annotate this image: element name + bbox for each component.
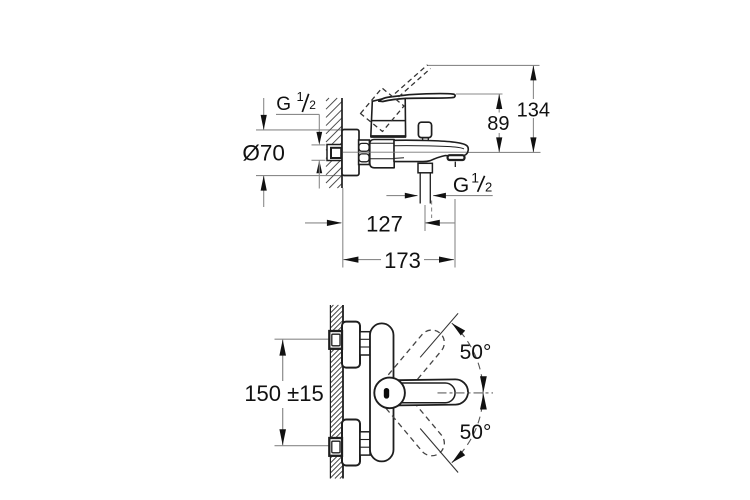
diverter pull knob [418, 122, 431, 137]
cartridge pivot circle [374, 378, 405, 409]
extension line spout bottom [467, 151, 541, 153]
hose pipe left line [419, 173, 421, 204]
connector thread line lower a [361, 439, 370, 441]
hex nut facet lower [359, 154, 369, 162]
dimension line 173 right [424, 259, 454, 261]
extension line lower connection [275, 445, 331, 447]
dimension line 89 lower [498, 133, 500, 152]
aerator [448, 155, 465, 160]
50 deg reference line upper [420, 313, 458, 357]
svg-text:1: 1 [471, 170, 479, 186]
svg-text:134: 134 [517, 99, 550, 121]
temperature indicator dot [384, 388, 389, 399]
arrow G1/2 wall down [316, 132, 322, 145]
diverter stem right [427, 138, 429, 141]
aerator outlet tick [454, 162, 456, 167]
extension line hose centre [424, 205, 426, 231]
svg-text:50°: 50° [460, 421, 492, 444]
dimension line G1/2 hose left [386, 195, 417, 197]
arrow 173 left [343, 257, 358, 263]
arrow 134 bottom [530, 137, 536, 152]
union hex nut (side view) [359, 140, 370, 165]
extension line escutcheon bottom (O70) [256, 175, 342, 177]
arrow 89 bottom [496, 137, 502, 152]
svg-text:89: 89 [487, 113, 509, 135]
arrow O70 bottom [261, 176, 267, 191]
angle arc lower [452, 393, 483, 463]
arrow 150 bottom [279, 429, 286, 445]
arrow 150 top [279, 340, 286, 356]
extension line wall surface lower [342, 188, 344, 268]
escutcheon upper (plan) [342, 322, 360, 368]
handle centreline inner part [438, 392, 469, 394]
arrow 127 at wall [327, 220, 342, 226]
extension line escutcheon top (O70) [256, 129, 342, 131]
diverter stem left [422, 138, 424, 141]
arrow 127 at hose [425, 220, 440, 226]
wall surface line (side view) [341, 98, 343, 188]
50 deg reference line lower [420, 429, 458, 473]
connector thread line lower b [361, 446, 370, 448]
arrow O70 top [261, 115, 267, 130]
fraction slash (hose thread) [478, 176, 485, 192]
handle swung up 50 deg (dashed) [377, 330, 444, 406]
spout contour line upper [394, 146, 464, 149]
arrow 89 top [496, 94, 502, 109]
lever handle (plan) outer [377, 379, 468, 405]
connector thread line upper a [361, 338, 370, 340]
svg-text:173: 173 [384, 248, 421, 273]
spout contour line lower [394, 157, 404, 160]
hose pipe right line [429, 173, 431, 204]
dimension line 150 lower [282, 408, 284, 446]
dimension line 150 upper [282, 339, 284, 381]
wall surface line (plan view) [342, 305, 344, 479]
extension line nipple bottom [312, 159, 326, 161]
svg-text:2: 2 [309, 98, 316, 112]
handle open position (dashed) [361, 88, 405, 132]
extension line nipple top [312, 144, 326, 146]
arc arrow upper end [452, 323, 465, 335]
union block line lower [370, 158, 394, 160]
dimension line 134 lower [532, 118, 534, 152]
lever handle (plan) inner [380, 383, 455, 403]
union nut inner upper [332, 334, 340, 346]
union nut upper (plan) [329, 331, 342, 349]
leader line G1/2 wall horizontal [276, 113, 319, 115]
leader line G1/2 wall vertical [318, 114, 320, 132]
escutcheon lower (plan) [342, 420, 360, 466]
svg-text:1: 1 [297, 89, 304, 104]
extension line hose right edge [431, 201, 433, 219]
extension line lever top [456, 93, 503, 95]
nipple bore [331, 148, 341, 158]
shower hose fitting [418, 163, 432, 173]
body ring line [371, 120, 405, 122]
arrow G1/2 hose right [433, 193, 446, 199]
arc arrow lower end [452, 450, 465, 462]
dimension line 127 left [305, 222, 341, 224]
threaded connector upper [360, 332, 370, 355]
escutcheon (side view) [342, 130, 359, 176]
connector thread line upper b [361, 346, 370, 348]
lever raised dashed line upper [395, 65, 428, 94]
hex nut facet upper [359, 143, 369, 151]
svg-text:G: G [453, 174, 469, 197]
dimension line O70 lower segment [263, 176, 265, 207]
wall back line (plan view) [329, 305, 331, 479]
extension line spout outlet [454, 199, 456, 268]
arrow G1/2 hose left [405, 193, 418, 199]
svg-text:150 ±15: 150 ±15 [244, 381, 323, 406]
pipe nipple behind wall [327, 145, 342, 161]
lever raised dashed line lower [399, 69, 431, 98]
handle centreline [438, 392, 494, 394]
angle arc upper [452, 323, 483, 393]
extension line handle raised top [427, 64, 540, 66]
threaded connector lower [360, 432, 370, 455]
wall hatching (plan view) [330, 305, 343, 479]
arrow 173 right [439, 257, 454, 263]
svg-text:Ø70: Ø70 [242, 141, 285, 166]
dimension line G1/2 hose right [433, 195, 493, 197]
fraction slash (wall thread) [302, 94, 308, 112]
dimension line O70 upper segment [263, 98, 265, 130]
svg-text:G: G [276, 94, 291, 115]
wall hatching (side view) [326, 98, 342, 188]
arrow 134 top [530, 65, 536, 80]
arrow G1/2 wall up [316, 160, 322, 173]
inlet union block [370, 140, 394, 168]
dimension line 127 right [425, 222, 455, 224]
body base heavy line [370, 135, 406, 138]
mixer body [371, 97, 406, 137]
arc arrow at centreline upper [480, 376, 487, 392]
svg-text:127: 127 [366, 211, 403, 236]
dimension line 173 left [343, 259, 381, 261]
arc arrow at centreline lower [480, 394, 487, 410]
dimension line 134 upper [532, 65, 534, 99]
connection centreline [343, 151, 467, 153]
mixer body (plan) [370, 323, 394, 461]
spout [394, 140, 468, 161]
union block line upper [370, 142, 394, 144]
svg-text:50°: 50° [460, 341, 492, 364]
extension line upper connection [275, 338, 331, 340]
dimension line 89 upper [498, 94, 500, 113]
handle swung down 50 deg (dashed) [377, 380, 444, 456]
lever handle [379, 94, 455, 102]
arrow stem G1/2 wall [318, 160, 320, 188]
union nut lower (plan) [329, 438, 342, 456]
union nut inner lower [332, 441, 340, 453]
svg-text:2: 2 [485, 179, 492, 194]
